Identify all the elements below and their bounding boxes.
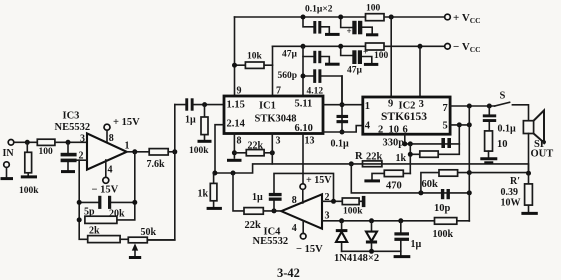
terminal -15V IC4 <box>300 233 306 239</box>
wire IC2 pin9 supply drop <box>390 17 392 97</box>
svg-text:NE5532: NE5532 <box>253 236 289 247</box>
wire input <box>14 141 86 143</box>
svg-text:7: 7 <box>443 103 448 114</box>
svg-text:100: 100 <box>39 147 54 157</box>
capacitor 560p <box>303 76 342 105</box>
svg-text:IC2: IC2 <box>399 101 416 112</box>
svg-text:9: 9 <box>237 86 242 97</box>
wire IC1 pin 2.14 <box>215 125 224 173</box>
diode D2 1N4148 <box>371 221 373 252</box>
node rail2 junctions <box>301 44 306 49</box>
wire IC1 pin 8 ground <box>233 134 235 159</box>
svg-text:10k: 10k <box>247 52 263 62</box>
capacitor 10p <box>441 189 444 199</box>
svg-text:8: 8 <box>237 136 242 147</box>
svg-text:22k: 22k <box>245 220 262 231</box>
wire +Vcc rail <box>235 16 446 18</box>
wire IC1 pin6.10 to IC2 pin4 <box>323 126 363 132</box>
capacitor 5p <box>79 201 135 203</box>
wire IC3 pin2 <box>77 159 87 161</box>
resistor 20k <box>85 216 117 223</box>
svg-text:+: + <box>347 26 352 36</box>
svg-text:7.6k: 7.6k <box>147 159 166 170</box>
wire IC2 pin6 drop <box>404 134 406 144</box>
svg-text:10p: 10p <box>434 203 451 214</box>
wire IC1 pin 13 to +15V IC4 <box>302 134 304 184</box>
resistor 22k (IC4 output) <box>233 173 282 211</box>
svg-text:IC3: IC3 <box>63 111 80 122</box>
resistor 60k <box>421 173 469 193</box>
svg-text:1N4148×2: 1N4148×2 <box>334 253 379 264</box>
resistor 100k input <box>26 142 29 175</box>
svg-text:5: 5 <box>443 121 448 132</box>
svg-text:3: 3 <box>325 210 330 221</box>
svg-text:0.1µ×2: 0.1µ×2 <box>305 5 333 15</box>
svg-text:R′: R′ <box>510 176 520 187</box>
svg-text:0.39: 0.39 <box>501 187 519 198</box>
svg-text:7: 7 <box>276 86 281 97</box>
resistor 100 (-Vcc) <box>366 43 385 50</box>
svg-text:1k: 1k <box>396 153 407 164</box>
IC1 STK3048 box <box>224 96 323 134</box>
IC2 STK6153 box <box>363 97 450 134</box>
capacitor 0.1u (rail1 first) <box>303 17 329 33</box>
wire IC4 pin2 <box>322 200 362 202</box>
terminal +15V IC3 <box>104 124 110 130</box>
svg-text:100: 100 <box>366 4 381 14</box>
svg-text:100: 100 <box>374 51 389 61</box>
speaker SP OUT <box>523 121 533 134</box>
svg-text:0.1µ: 0.1µ <box>331 139 350 150</box>
svg-text:STK3048: STK3048 <box>255 114 297 125</box>
svg-text:1µ: 1µ <box>252 192 263 203</box>
svg-text:330p: 330p <box>383 138 405 149</box>
wire input net line A <box>214 164 529 173</box>
svg-text:3: 3 <box>419 99 424 110</box>
svg-text:2: 2 <box>378 125 383 136</box>
svg-text:3-42: 3-42 <box>277 266 300 280</box>
resistor 2k <box>88 236 120 243</box>
resistor 100k (IC4 pin2) <box>342 198 359 205</box>
svg-text:0.1µ: 0.1µ <box>498 124 517 135</box>
svg-text:2k: 2k <box>89 226 100 237</box>
terminal IN ground <box>4 162 10 168</box>
switch S <box>495 102 529 120</box>
svg-text:10W: 10W <box>501 198 521 209</box>
svg-text:+: + <box>363 47 368 57</box>
svg-text:IN: IN <box>3 148 15 159</box>
op-amp IC3 <box>87 133 127 169</box>
svg-text:3: 3 <box>276 136 281 147</box>
svg-text:IC1: IC1 <box>259 101 276 112</box>
wire IC4 pin3 <box>322 220 469 222</box>
terminal -Vcc <box>445 44 451 50</box>
svg-text:470: 470 <box>386 181 402 192</box>
svg-text:− 15V: − 15V <box>92 185 119 196</box>
wire R22k node drop <box>351 164 469 193</box>
resistor R' 0.39 10W <box>528 173 530 212</box>
svg-text:NE5532: NE5532 <box>55 122 91 133</box>
resistor 100k (IC1 input) <box>204 105 206 140</box>
capacitor 1u coupling <box>185 98 188 110</box>
svg-text:1k: 1k <box>198 189 209 200</box>
terminal IN <box>8 140 14 146</box>
svg-text:6.10: 6.10 <box>295 123 313 134</box>
svg-text:60k: 60k <box>422 179 439 190</box>
capacitor 1u (IC4 pin3) <box>400 221 402 256</box>
svg-text:100k: 100k <box>343 207 363 217</box>
wire output feedback vertical <box>117 152 135 220</box>
svg-text:4: 4 <box>365 121 371 132</box>
svg-text:100k: 100k <box>19 186 39 196</box>
terminal +15V IC4 <box>300 184 306 190</box>
svg-text:100k: 100k <box>189 146 209 156</box>
svg-text:20k: 20k <box>109 209 125 220</box>
potentiometer 50k <box>128 237 147 243</box>
capacitor 0.1u (zobel) <box>488 106 490 131</box>
diode D1 1N4148 <box>341 221 343 252</box>
resistor 1k (IC2 fb) <box>410 144 459 174</box>
svg-text:4: 4 <box>108 165 113 176</box>
svg-text:47µ: 47µ <box>282 50 298 60</box>
capacitor 330p <box>405 125 460 144</box>
wire IC2 pin3 supply drop <box>419 46 421 97</box>
svg-text:STK6153: STK6153 <box>381 111 427 123</box>
svg-text:3: 3 <box>80 134 85 145</box>
wire diode bottoms <box>342 250 401 252</box>
svg-text:+ 15V: + 15V <box>113 117 140 128</box>
svg-text:560p: 560p <box>278 71 298 81</box>
svg-text:50k: 50k <box>141 227 157 238</box>
svg-text:100k: 100k <box>433 229 454 240</box>
wire IC1 pin5.11 to IC2 pin1 <box>323 104 363 106</box>
wire -Vcc rail <box>273 45 446 47</box>
resistor 10 (zobel) <box>485 131 493 151</box>
wire output vertical <box>468 106 470 221</box>
wire feedback from 7.6k node down to 50k <box>147 105 175 240</box>
terminal +Vcc <box>445 14 451 20</box>
svg-text:13: 13 <box>305 136 315 147</box>
svg-text:22k: 22k <box>248 141 264 152</box>
wire line B output to R' <box>469 172 528 174</box>
svg-text:10: 10 <box>389 125 400 136</box>
resistor 10k <box>235 64 273 66</box>
svg-text:OUT: OUT <box>531 149 554 160</box>
svg-text:8: 8 <box>109 133 114 144</box>
svg-text:S: S <box>500 91 506 102</box>
svg-text:+ 15V: + 15V <box>306 175 332 186</box>
resistor 100 input <box>37 139 55 145</box>
svg-text:1: 1 <box>125 141 130 152</box>
wire IC1 pin 3 <box>271 134 273 164</box>
svg-text:9: 9 <box>388 99 393 110</box>
svg-text:1µ: 1µ <box>411 239 422 250</box>
capacitor 1u (IC4 feedback) <box>274 173 334 211</box>
resistor 470 <box>372 173 410 179</box>
svg-text:− 15V: − 15V <box>296 244 323 255</box>
wire IC3 output <box>127 151 150 153</box>
svg-text:2.14: 2.14 <box>227 119 246 130</box>
capacitor 0.1u (between IC1/IC2) <box>341 76 343 132</box>
resistor 7.6k <box>149 149 168 155</box>
svg-text:47µ: 47µ <box>347 66 363 76</box>
op-amp IC4 <box>281 194 322 228</box>
wire IC2 pin5 <box>450 124 469 126</box>
svg-text:1.15: 1.15 <box>227 100 245 111</box>
svg-text:8: 8 <box>292 195 297 206</box>
node rail1 junctions <box>301 15 306 20</box>
svg-text:10: 10 <box>497 139 508 150</box>
wire IC2 pin7 output <box>450 105 495 107</box>
capacitor 47u (rail1 second, polarized) <box>341 17 373 33</box>
svg-text:4: 4 <box>292 223 297 234</box>
capacitor input (pin3 to gnd) <box>67 142 69 170</box>
wire IC1 pin4.12 drop <box>302 46 304 96</box>
svg-text:1: 1 <box>365 101 370 112</box>
svg-text:5.11: 5.11 <box>295 99 313 110</box>
resistor 100k (IC4 pin3) <box>435 218 457 225</box>
capacitor 47u (rail2 second, polarized) <box>341 46 372 63</box>
svg-text:1µ: 1µ <box>185 115 196 126</box>
terminal -15V IC3 <box>103 177 109 183</box>
resistor 1k (IC4 gnd) <box>213 173 215 207</box>
wire IC1 pin9 supply drop <box>234 17 236 96</box>
wire IC1 pin7 supply drop <box>272 46 274 96</box>
ground (zobel) <box>480 157 497 160</box>
resistor 100 (+Vcc) <box>366 14 385 21</box>
resistor 22k (IC1 pins 8-3) <box>234 152 272 154</box>
capacitor 0.1u (rail2 first) <box>303 57 329 63</box>
